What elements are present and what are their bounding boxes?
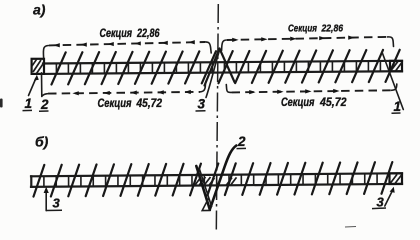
dim line: Sekcia 45,72 left (dashed): [48, 92, 200, 94]
beam A rungs (ticks): [56, 61, 380, 74]
section reversal V at centre of beam A: [205, 49, 235, 86]
beam B ladder: top chord: [31, 173, 402, 176]
svg-text:1: 1: [25, 96, 33, 111]
page edge speck: [0, 99, 3, 108]
beam A ladder: bottom chord: [43, 71, 402, 74]
beam B rungs (ticks): [44, 173, 390, 186]
svg-text:а): а): [33, 2, 46, 18]
dim line: Sekcia 45,72 right (dashed): [232, 90, 393, 92]
hook centre end of top-left dim line: [205, 42, 212, 53]
beam B ladder: bottom chord: [31, 184, 402, 187]
feed delta triangle: [202, 199, 210, 211]
callout 3 centre: curved leader to V apex: [206, 51, 219, 98]
callout 2 left: vertical leader to beam: [41, 73, 43, 97]
svg-text:Секция: Секция: [288, 23, 317, 35]
right end insulator block (hatched): [390, 61, 402, 72]
arrows on bottom-right dim line: [249, 89, 339, 94]
svg-text:Секция: Секция: [281, 97, 315, 109]
left end insulator block (hatched): [32, 59, 44, 74]
svg-text:3: 3: [198, 97, 206, 112]
svg-text:22,86: 22,86: [321, 23, 343, 35]
hook centre end of top-right dim line: [222, 40, 227, 51]
svg-text:2: 2: [40, 97, 49, 112]
svg-text:22,86: 22,86: [136, 28, 160, 40]
stray scan mark bottom right: [345, 226, 356, 229]
arrows on top-left dim line: [53, 40, 194, 47]
svg-text:45,72: 45,72: [319, 97, 347, 109]
svg-text:2: 2: [237, 134, 246, 149]
helix hatch diagonals on beam A: [52, 50, 400, 85]
right end block of beam B (hatched): [390, 173, 403, 184]
svg-text:б): б): [35, 134, 49, 150]
beam A ladder: top chord: [43, 61, 402, 64]
arrows on bottom-left dim line: [72, 90, 190, 95]
callout 3 bottom-right: leader with arrow: [385, 192, 392, 207]
hook centre end of bottom-left dim line: [200, 83, 206, 92]
callout 1 right: leader through block: [382, 52, 403, 110]
svg-text:1: 1: [394, 99, 402, 114]
callout 1 left: leader with arrow to block: [29, 79, 36, 96]
centre hatched cells of beam B (feed): [195, 177, 237, 186]
svg-text:Секция: Секция: [100, 28, 133, 40]
hook right end of top-right dim line: [388, 37, 394, 47]
hook left end of top-left dim line: [43, 46, 48, 58]
callout 3 bottom-left: L-shaped leader with arrow: [45, 191, 47, 211]
beam B left end cap: [30, 176, 32, 187]
hook left end of bottom-left dim line: [42, 94, 48, 97]
feed V at centre of beam B: [196, 146, 236, 210]
arrows on top-right dim line: [232, 36, 354, 42]
center axis dash-dot line: [216, 4, 218, 232]
hook centre end of bottom-right dim line: [226, 85, 231, 93]
svg-text:Секция: Секция: [98, 98, 132, 110]
svg-text:3: 3: [53, 195, 61, 210]
dim line: Sekcia 22,86 right (dashed): [227, 37, 388, 40]
hook right end of bottom-right dim line: [392, 84, 397, 90]
dim line: Sekcia 22,86 left (dashed): [49, 42, 205, 45]
feed V double stroke (left arm): [200, 170, 212, 207]
svg-text:45,72: 45,72: [136, 98, 163, 110]
helix hatch diagonals on beam B: [34, 162, 393, 197]
svg-text:3: 3: [377, 194, 385, 209]
